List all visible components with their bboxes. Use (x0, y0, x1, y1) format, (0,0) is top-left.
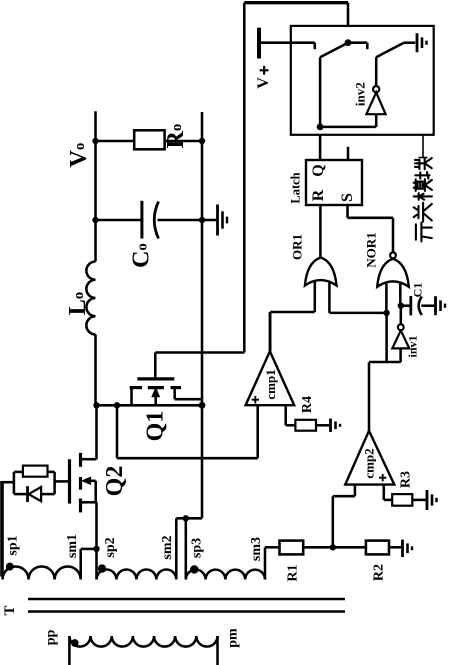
svg-text:Q2: Q2 (102, 466, 128, 497)
svg-text:sp3: sp3 (190, 538, 205, 558)
svg-text:sm1: sm1 (65, 534, 80, 558)
svg-text:pm: pm (226, 628, 241, 648)
svg-text:inv1: inv1 (406, 335, 420, 357)
svg-text:R3: R3 (399, 471, 414, 488)
svg-text:Latch: Latch (289, 172, 303, 203)
svg-text:Q1: Q1 (143, 411, 169, 442)
svg-text:sp1: sp1 (6, 535, 21, 555)
svg-text:C1: C1 (411, 283, 425, 298)
svg-text:V: V (255, 77, 272, 89)
svg-text:R4: R4 (300, 396, 315, 413)
svg-text:sp2: sp2 (103, 537, 118, 557)
svg-text:R2: R2 (372, 564, 387, 581)
svg-text:sm2: sm2 (160, 535, 175, 559)
svg-text:R1: R1 (286, 564, 301, 581)
svg-text:R: R (310, 189, 327, 201)
svg-text:cmp2: cmp2 (362, 448, 377, 478)
svg-text:S: S (339, 193, 356, 202)
svg-text:pp: pp (44, 630, 59, 646)
svg-text:NOR1: NOR1 (364, 232, 379, 267)
svg-text:OR1: OR1 (290, 234, 305, 260)
svg-text:T: T (2, 605, 18, 615)
svg-text:inv2: inv2 (352, 82, 367, 106)
svg-text:sm3: sm3 (249, 537, 264, 561)
svg-text:cmp1: cmp1 (263, 369, 278, 399)
svg-text:Q: Q (310, 164, 327, 176)
